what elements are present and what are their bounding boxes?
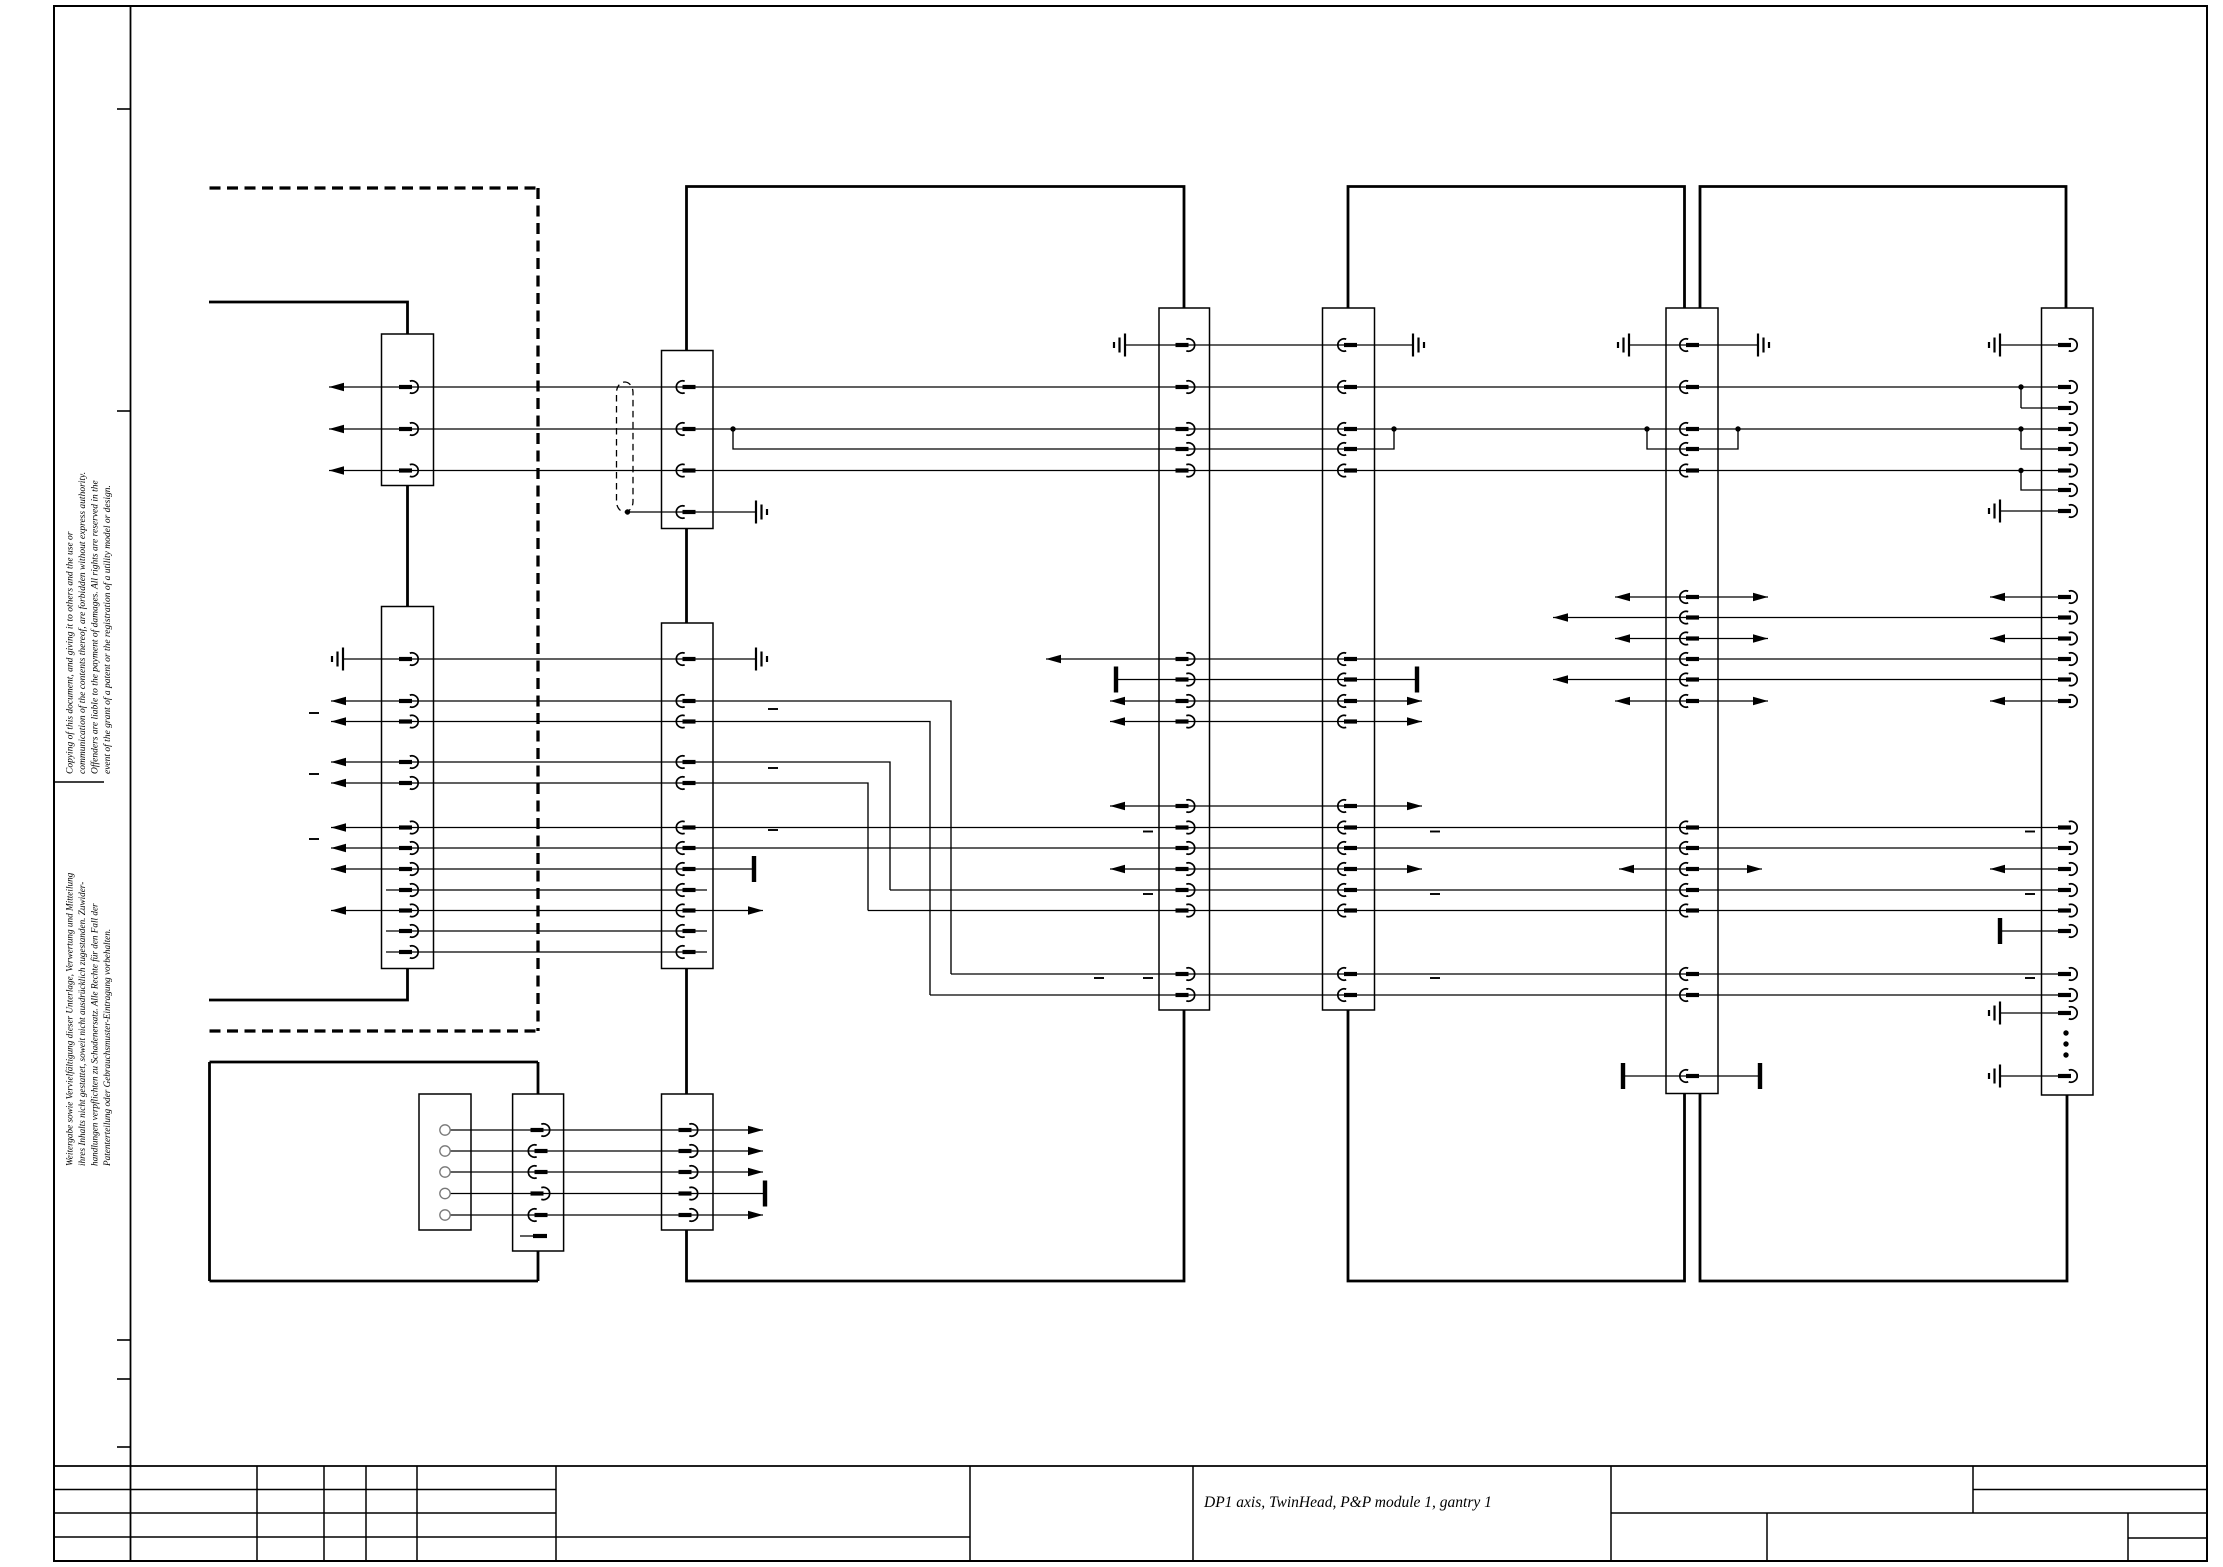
jumper loop 429-449 around X7	[1647, 429, 1738, 449]
net PE X7 y345	[1629, 344, 1758, 346]
connector X6	[1323, 308, 1375, 1010]
wire label dash at 1148,978	[1143, 977, 1153, 979]
junction net A2 x1647	[1644, 426, 1649, 431]
junction net A3 at X8	[2018, 468, 2023, 473]
wire label dash at 1435,978	[1430, 977, 1440, 979]
net B7 y721 X5-X6 segment	[1110, 721, 1422, 723]
pins X3	[399, 657, 412, 661]
net X8 pin ground y511	[2000, 510, 2066, 512]
wire label dash at 1148,831.5	[1143, 831, 1153, 833]
title block row line y1537	[54, 1536, 970, 1538]
terminal strip X4a	[419, 1094, 471, 1230]
pins X1	[399, 385, 412, 389]
wire bus X4 to X4c	[685, 969, 688, 1095]
jumper X8 429-449	[2021, 429, 2066, 449]
connector X5	[1159, 308, 1210, 1010]
wire label dash at 773,830	[768, 829, 778, 831]
net C6 y783 staircase	[331, 783, 868, 911]
net A2 y429 long wire	[329, 428, 2066, 430]
title block column x1611	[1610, 1466, 1612, 1561]
title block column x324	[323, 1466, 325, 1561]
net B3 y638 X7 segment	[1615, 638, 1768, 640]
net C8 y931 X3-X4 stub	[386, 930, 707, 932]
wire label dash at 314,839	[309, 838, 319, 840]
frame zone tick y1447	[117, 1446, 131, 1448]
svg-text:event of the grant of a patent: event of the grant of a patent or the re…	[102, 485, 113, 774]
wire label dash at 314,713	[309, 712, 319, 714]
frame zone tick y1379	[117, 1378, 131, 1380]
svg-text:Weitergabe sowie Vervielfältig: Weitergabe sowie Vervielfältigung dieser…	[65, 872, 75, 1166]
net C3 y869 X7 segment	[1619, 868, 1762, 870]
title block column x556	[555, 1466, 557, 1561]
net C9 y952 X3-X4 stub	[386, 951, 707, 953]
title block row line y1489	[54, 1489, 556, 1491]
pins X6	[1344, 343, 1357, 347]
svg-text:Copying of this document, and: Copying of this document, and giving it …	[65, 531, 76, 774]
net D1 y974 wire to X8	[951, 973, 2066, 975]
net B1 y597 X8 segment	[1990, 596, 2066, 598]
wire label dash at 2030,894	[2025, 893, 2035, 895]
title block column x970	[969, 1466, 971, 1561]
wire label dash at 2030,978	[2025, 977, 2035, 979]
net C8 y931 X8 segment	[2000, 930, 2066, 932]
frame zone tick y411	[117, 410, 131, 412]
net C4 y890 wire to X8	[890, 889, 2066, 891]
net C3 y869 X8 segment	[1990, 868, 2066, 870]
pins X4b	[531, 1128, 544, 1132]
title block column x1193	[1192, 1466, 1194, 1561]
net B4 y659 wire	[1046, 658, 2066, 660]
wire label dash at 773,768	[768, 767, 778, 769]
connector X8	[2042, 308, 2094, 1095]
wire label dash at 1435,831.5	[1430, 831, 1440, 833]
pins X4	[683, 657, 696, 661]
title block column x257	[256, 1466, 258, 1561]
svg-text:communication of the contents: communication of the contents thereof, a…	[77, 472, 88, 774]
pins X4c	[679, 1128, 692, 1132]
net B6 y701 X7 segment	[1615, 700, 1768, 702]
net E5 y1193 bottom group terminated	[450, 1193, 765, 1195]
connector X1	[382, 334, 434, 486]
frame inner margin line	[130, 6, 132, 1561]
net PE X3-X4 y659	[343, 658, 756, 660]
pins X2	[683, 385, 696, 389]
jumper loop 429-449 around X5/X6	[733, 429, 1394, 449]
net D2 y721 staircase from X4	[331, 722, 930, 996]
connector X4	[662, 623, 714, 969]
wire label dash at 773,709	[768, 708, 778, 710]
svg-text:ihres Inhalts nicht gestattet,: ihres Inhalts nicht gestattet, soweit ni…	[77, 882, 87, 1166]
connector X3	[382, 607, 434, 969]
junction net A2 x1738	[1735, 426, 1740, 431]
wire bus X2 to X4	[685, 529, 688, 624]
net C7 y910 wire to X8	[868, 910, 2066, 912]
net PE X5-X6 y345	[1125, 344, 1413, 346]
svg-text:handlungen verpflichten zu Sch: handlungen verpflichten zu Schadenersatz…	[90, 903, 100, 1166]
net D1 y701 staircase from X4	[331, 701, 951, 974]
junction on net A1 at X8	[2018, 384, 2023, 389]
net C5 y762 staircase	[331, 762, 890, 890]
connector X2	[662, 351, 714, 529]
pins X8	[2058, 343, 2071, 347]
solid enclosure box right side upper	[537, 1062, 540, 1094]
title block column x1767	[1766, 1513, 1768, 1561]
svg-text:DP1 axis, TwinHead, P&P module: DP1 axis, TwinHead, P&P module 1, gantry…	[1203, 1494, 1492, 1511]
wire label dash at 1099,978	[1094, 977, 1104, 979]
net PE X8 y1076	[2000, 1075, 2066, 1077]
wire bus to connector X1 top	[209, 302, 408, 334]
junction shield drain	[625, 509, 630, 514]
wire bus from connector X3 bottom	[209, 969, 408, 1001]
terminal circles X4a	[440, 1125, 450, 1135]
wire bus X6 bottom to X7 bottom	[1348, 1010, 1685, 1281]
wire bus X1 to X3	[406, 486, 409, 607]
net PE X8 y345	[2000, 344, 2066, 346]
junction net A2 x733	[730, 426, 735, 431]
title block column x366	[365, 1466, 367, 1561]
net X4b spare pin y1236	[520, 1235, 546, 1237]
solid enclosure box bottom side	[210, 1280, 539, 1283]
svg-text:Offenders are liable to the pa: Offenders are liable to the payment of d…	[90, 480, 101, 774]
net B5 y679 X7-X8 segment	[1553, 679, 2066, 681]
junction net A2 x1394	[1391, 426, 1396, 431]
connector X4c	[662, 1094, 714, 1230]
wire bus loop X2 to X5 top	[687, 187, 1185, 351]
solid enclosure box top side	[210, 1061, 539, 1064]
ellipsis dots X8	[2063, 1030, 2068, 1035]
pins X5	[1176, 343, 1189, 347]
wire label dash at 2030,831.5	[2025, 831, 2035, 833]
jumper X8 470-490	[2021, 471, 2066, 491]
net C0 y806 X5-X6 segment	[1110, 805, 1422, 807]
pins X7	[1686, 343, 1699, 347]
connector X7	[1666, 308, 1718, 1094]
svg-text:Patenterteilung oder Gebrauchs: Patenterteilung oder Gebrauchsmuster-Ein…	[102, 929, 112, 1167]
cable shield capsule	[617, 382, 634, 512]
net B5 y679 X5-X6 segment	[1116, 679, 1417, 681]
net C2 y848 long wire	[331, 847, 2066, 849]
net C4 y890 X3-X4 stub	[386, 889, 707, 891]
solid enclosure box left side	[208, 1062, 211, 1281]
net B3 y638 X8 segment	[1990, 638, 2066, 640]
net D2 y995 wire to X8	[930, 994, 2066, 996]
net E1 y1130 bottom group	[450, 1129, 763, 1131]
solid enclosure box right side lower	[537, 1251, 540, 1281]
frame zone tick y109	[117, 108, 131, 110]
net shield drain y512 to ground	[628, 511, 757, 513]
dashed enclosure right side	[536, 188, 539, 1031]
net A3 y470 long wire	[329, 470, 2066, 472]
net PE X8 y1013	[2000, 1012, 2066, 1014]
title block column x417	[416, 1466, 418, 1561]
net C3 y869 X3-X4 segment	[331, 868, 754, 870]
dashed enclosure top side	[210, 186, 539, 189]
net C3 y869 X5-X6 segment	[1110, 868, 1422, 870]
wire bus X7 bottom to X8 bottom	[1700, 1094, 2067, 1282]
net C1 y827 long wire	[331, 827, 2066, 829]
title block column x1973	[1972, 1466, 1974, 1513]
wire bus loop X6 to X7 top	[1348, 187, 1685, 309]
net B1 y597 X7 segment	[1615, 596, 1768, 598]
net E2 y1151 bottom group	[450, 1150, 763, 1152]
title block row line y1513	[54, 1512, 556, 1514]
net E3 y1172 bottom group	[450, 1171, 763, 1173]
wire label dash at 314,774	[309, 773, 319, 775]
dashed enclosure bottom side	[210, 1029, 539, 1032]
wire bus X4c bottom to X5 bottom	[687, 1010, 1185, 1281]
margin text divider	[54, 781, 104, 783]
net A1 y387 long wire	[329, 386, 2066, 388]
net C7 y910 X3-X4 segment	[331, 910, 763, 912]
jumper X8 387-408	[2020, 387, 2022, 408]
wire label dash at 1148,894	[1143, 893, 1153, 895]
net E4 y1215 bottom group	[450, 1214, 763, 1216]
net B2 y617 wire	[1553, 617, 2066, 619]
net B6 y701 X8 segment	[1990, 700, 2066, 702]
net B6 y701 X5-X6 segment	[1110, 700, 1422, 702]
net X7 y1076 terminated both sides	[1623, 1075, 1760, 1077]
wire label dash at 1435,894	[1430, 893, 1440, 895]
wire bus loop X7 to X8 top	[1700, 187, 2066, 309]
title block top line	[54, 1465, 2207, 1467]
title block column x2128	[2127, 1513, 2129, 1561]
connector X4b	[513, 1094, 564, 1251]
frame zone tick y1340	[117, 1339, 131, 1341]
junction net A2 x2021	[2018, 426, 2023, 431]
